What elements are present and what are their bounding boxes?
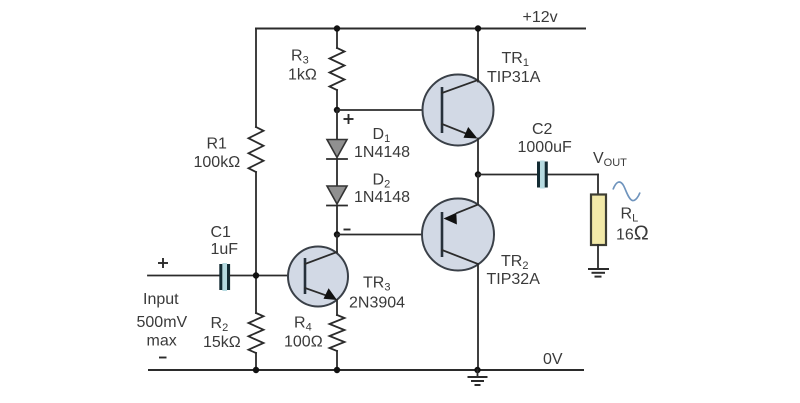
transistor TR3 collector lead [305, 252, 337, 264]
svg-text:1kΩ: 1kΩ [288, 67, 317, 84]
resistor R4 [330, 315, 345, 351]
wire lower bias node to TR2 base [337, 234, 442, 236]
capacitor C1 [219, 264, 222, 290]
node bias bottom (dot) [334, 231, 340, 237]
svg-text:1N4148: 1N4148 [354, 189, 410, 206]
wire top rail +12v [256, 28, 585, 30]
node plus sign at D1 anode [344, 118, 354, 120]
transistor TR1 collector lead [442, 80, 478, 93]
wire R3 to bias node [336, 90, 338, 110]
resistor R1 [249, 127, 264, 172]
wire TR1 emitter to output node [477, 139, 479, 175]
node bias top (dot) [334, 107, 340, 113]
transistor TR2 base bar [441, 212, 444, 257]
ground at bottom rail [477, 370, 479, 377]
wire C2 to Vout corner [548, 174, 598, 176]
node input plus [158, 262, 168, 264]
wire RL to ground [597, 245, 599, 269]
node input minus [159, 357, 167, 359]
svg-text:+12v: +12v [523, 9, 558, 26]
wire TR3 emitter to R4 [336, 300, 338, 315]
svg-text:1N4148: 1N4148 [354, 144, 410, 161]
wire TR2 collector to bottom rail [477, 264, 479, 370]
transistor TR1 body [423, 75, 494, 146]
transistor TR2 body [422, 199, 494, 271]
wire D1 to D2 [336, 159, 338, 186]
transistor TR2 emitter lead with arrow (PNP) [457, 205, 478, 214]
svg-text:max: max [147, 333, 177, 350]
node dot R2/rail [253, 367, 259, 373]
svg-text:15kΩ: 15kΩ [203, 334, 241, 351]
svg-text:C2: C2 [532, 121, 553, 138]
svg-text:TIP32A: TIP32A [487, 271, 541, 288]
ground under RL [588, 268, 609, 270]
svg-text:1000uF: 1000uF [518, 139, 572, 156]
node dot TR1 collector/rail [475, 25, 481, 31]
svg-text:R1: R1 [207, 136, 228, 153]
wire TR1 collector to top rail [477, 29, 479, 82]
wire R4 to bottom rail [336, 351, 338, 370]
transistor TR1 base bar [441, 87, 444, 133]
wire output node to TR2 emitter [477, 175, 479, 205]
wire corner down to RL [597, 175, 599, 196]
svg-text:0V: 0V [543, 351, 563, 368]
wire bottom rail 0V [149, 369, 583, 371]
transistor TR1 emitter lead with arrow [442, 124, 471, 136]
wire bias node down to D1 [336, 110, 338, 140]
wire lower bias node down to TR3 collector [336, 235, 338, 253]
transistor TR3 base bar [304, 258, 307, 294]
wire D2 to lower bias node [336, 206, 338, 235]
wire R3 branch from top rail [336, 29, 338, 49]
node junction C1/R1/R2 [253, 272, 259, 278]
resistor RL (load box) [591, 195, 606, 246]
svg-text:100kΩ: 100kΩ [194, 154, 241, 171]
transistor TR2 collector lead [442, 250, 478, 264]
svg-text:TIP31A: TIP31A [487, 69, 541, 86]
wire input line [148, 275, 219, 277]
resistor R3 [330, 48, 345, 90]
svg-text:500mV: 500mV [137, 314, 188, 331]
node dot TR2/rail with ground [474, 367, 480, 373]
wire left branch upper (top rail to R1) [255, 29, 257, 128]
svg-text:2N3904: 2N3904 [349, 295, 405, 312]
sine wave symbol [613, 182, 640, 201]
transistor TR3 body [288, 247, 348, 307]
transistor TR3 emitter lead with arrow [305, 288, 332, 298]
wire R1 bottom to input junction [255, 172, 257, 313]
svg-text:16Ω: 16Ω [616, 223, 649, 245]
capacitor C2 [537, 162, 540, 188]
node dot top rail / R3 [334, 25, 340, 31]
wire R2 bottom to rail [255, 353, 257, 370]
node minus sign at D2 cathode [344, 229, 351, 231]
wire bias node to TR1 base [337, 109, 442, 111]
svg-text:1uF: 1uF [211, 241, 239, 258]
node output (dot) [475, 171, 481, 177]
resistor R2 [249, 313, 264, 353]
wire C1 to TR3 base [230, 275, 305, 277]
svg-text:100Ω: 100Ω [284, 334, 323, 351]
svg-text:Input: Input [143, 291, 179, 308]
node dot R4/rail [334, 367, 340, 373]
diode D2 [327, 186, 347, 204]
svg-text:C1: C1 [211, 224, 232, 241]
wire output node to C2 [478, 174, 537, 176]
diode D1 [327, 140, 347, 158]
